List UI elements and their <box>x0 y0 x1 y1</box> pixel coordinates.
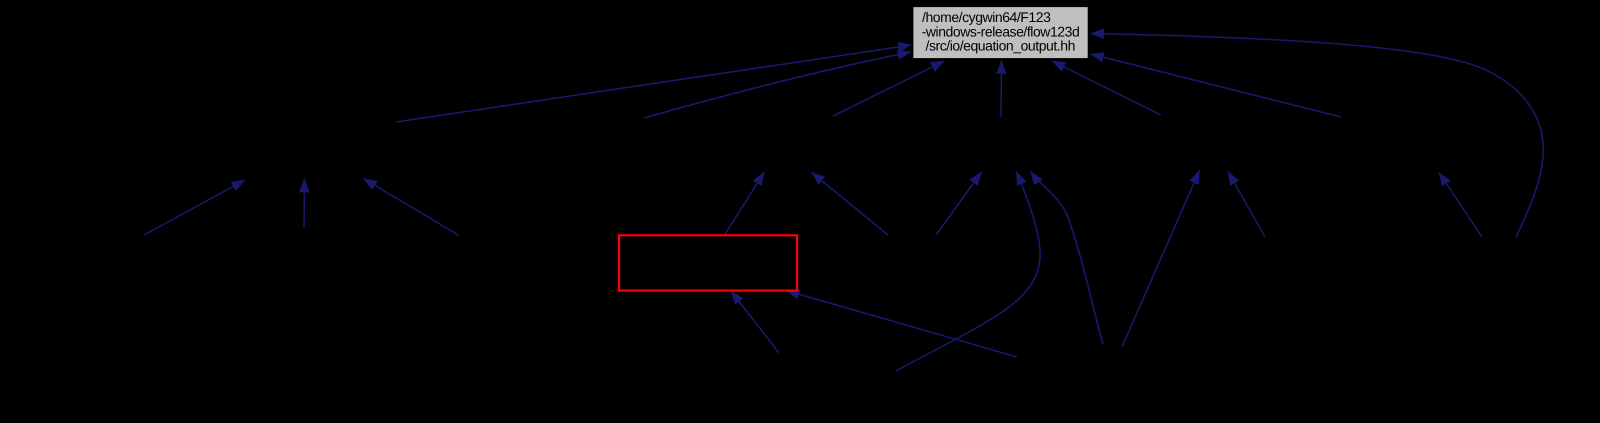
wire edge E6: node B2 -> equation_output.hh <box>833 61 945 116</box>
wire edge E14: deep child spline -> node C <box>896 172 1040 372</box>
svg-text:/src/io/equation_output.hh: /src/io/equation_output.hh <box>926 38 1075 54</box>
wire edge E12: child -> node B2 <box>812 172 889 235</box>
wire edge E19: child -> red node <box>731 291 779 353</box>
wire edge E20: child -> red node <box>786 291 1017 358</box>
wire edge E3: child3 -> node A <box>364 179 460 236</box>
wire edge E1: child1 -> node A <box>144 180 245 235</box>
wire edge E11: red node -> node B2 <box>725 172 764 235</box>
wire edge E17: child -> node D <box>1228 172 1265 238</box>
wire edge E7: node C -> equation_output.hh <box>1000 61 1003 118</box>
wire edge E13: child -> node C <box>936 172 982 235</box>
wire edge E18: child -> node E <box>1439 173 1482 238</box>
node: highlighted current file (red outline) <box>619 235 797 290</box>
wire edge E8: node D -> equation_output.hh <box>1052 61 1161 115</box>
wire edge E10: far-right node arc -> equation_output.hh <box>1091 34 1544 238</box>
wire edge E5: node B1 -> equation_output.hh <box>644 52 911 118</box>
node: /home/cygwin64/F123-windows-release/flow123d/src/io/equation_output.hh (root, grey filled) <box>913 6 1089 59</box>
wire edge E2: child2 -> node A <box>303 179 306 228</box>
wire edge E4: node A -> equation_output.hh <box>396 45 912 122</box>
wire edge E15: deep child spline -> node C <box>1031 172 1104 345</box>
wire edge E9: node E -> equation_output.hh <box>1091 54 1342 117</box>
wire edge E16: child -> node D <box>1122 171 1200 348</box>
